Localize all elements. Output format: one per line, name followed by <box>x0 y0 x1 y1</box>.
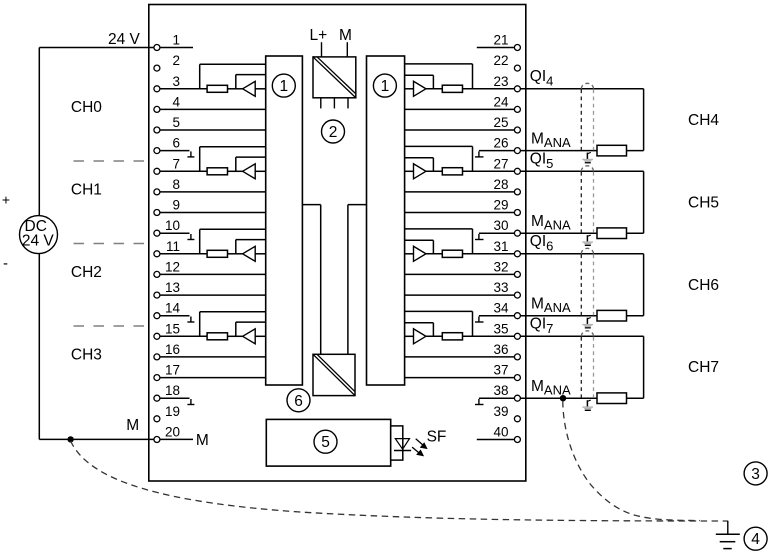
svg-text:+: + <box>2 192 10 208</box>
svg-text:21: 21 <box>493 33 508 48</box>
svg-text:M: M <box>196 432 209 449</box>
svg-text:35: 35 <box>493 321 508 336</box>
svg-text:25: 25 <box>493 115 508 130</box>
svg-text:27: 27 <box>493 156 508 171</box>
svg-text:-: - <box>3 255 8 272</box>
svg-text:30: 30 <box>493 218 508 233</box>
svg-text:29: 29 <box>493 198 508 213</box>
svg-text:CH1: CH1 <box>71 181 102 198</box>
svg-text:10: 10 <box>165 218 180 233</box>
svg-text:M: M <box>339 27 352 44</box>
svg-text:CH2: CH2 <box>71 264 102 281</box>
svg-text:26: 26 <box>493 136 508 151</box>
svg-text:1: 1 <box>279 78 288 95</box>
svg-text:37: 37 <box>493 363 508 378</box>
svg-text:15: 15 <box>165 321 180 336</box>
svg-text:3: 3 <box>751 466 760 483</box>
svg-text:2: 2 <box>329 124 338 141</box>
svg-text:5: 5 <box>321 434 330 451</box>
svg-text:16: 16 <box>165 342 180 357</box>
svg-text:20: 20 <box>165 425 180 440</box>
svg-text:34: 34 <box>493 301 509 316</box>
svg-text:4: 4 <box>751 531 760 548</box>
svg-text:9: 9 <box>172 198 180 213</box>
svg-text:L+: L+ <box>310 27 328 44</box>
svg-text:31: 31 <box>493 239 508 254</box>
svg-text:39: 39 <box>493 404 508 419</box>
svg-text:12: 12 <box>165 259 180 274</box>
svg-text:40: 40 <box>493 425 508 440</box>
svg-text:24 V: 24 V <box>108 31 141 48</box>
svg-text:23: 23 <box>493 74 508 89</box>
svg-text:CH7: CH7 <box>688 359 719 376</box>
svg-text:SF: SF <box>427 428 447 445</box>
svg-text:CH5: CH5 <box>688 195 719 212</box>
svg-text:18: 18 <box>165 383 180 398</box>
svg-text:11: 11 <box>166 239 180 254</box>
svg-text:CH4: CH4 <box>688 112 719 129</box>
svg-text:CH0: CH0 <box>71 99 102 116</box>
svg-text:6: 6 <box>172 136 180 151</box>
svg-text:14: 14 <box>165 301 181 316</box>
svg-text:CH6: CH6 <box>688 277 719 294</box>
svg-text:17: 17 <box>165 363 180 378</box>
svg-text:1: 1 <box>172 33 180 48</box>
svg-text:38: 38 <box>493 383 508 398</box>
svg-text:6: 6 <box>294 393 303 410</box>
svg-text:24: 24 <box>493 94 509 109</box>
svg-text:2: 2 <box>172 53 180 68</box>
svg-text:CH3: CH3 <box>71 346 102 363</box>
svg-text:4: 4 <box>172 94 180 109</box>
svg-text:24 V: 24 V <box>22 233 55 250</box>
svg-text:13: 13 <box>165 280 180 295</box>
svg-text:3: 3 <box>172 74 180 89</box>
svg-text:22: 22 <box>493 53 508 68</box>
svg-text:7: 7 <box>172 156 180 171</box>
svg-text:36: 36 <box>493 342 508 357</box>
svg-text:8: 8 <box>172 177 180 192</box>
svg-text:28: 28 <box>493 177 508 192</box>
svg-text:32: 32 <box>493 259 508 274</box>
svg-text:5: 5 <box>172 115 180 130</box>
svg-text:19: 19 <box>165 404 180 419</box>
svg-text:M: M <box>126 417 139 434</box>
svg-text:1: 1 <box>381 78 390 95</box>
svg-text:33: 33 <box>493 280 508 295</box>
